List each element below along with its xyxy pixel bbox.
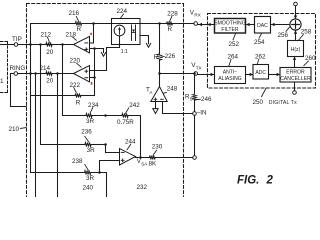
terminal digital rx (294, 2, 298, 6)
ground under 248 (155, 102, 157, 109)
wire RING left loop (11, 74, 27, 107)
wire VTX (160, 73, 194, 75)
svg-text:TX: TX (196, 66, 202, 71)
label 262 (255, 53, 266, 60)
svg-text:SMOOTHING: SMOOTHING (214, 21, 245, 27)
svg-text:20: 20 (46, 49, 54, 56)
svg-text:ALIASING: ALIASING (218, 76, 242, 82)
ladder row2 wire 236 (41, 144, 85, 146)
label 264 (228, 53, 239, 60)
error canceller (280, 68, 311, 83)
FIG. 2 title (237, 175, 274, 187)
svg-text:A: A (149, 90, 153, 95)
svg-text:0.75R: 0.75R (117, 119, 134, 126)
wire 224 bottom to 220 plus (119, 36, 121, 48)
wire VRX to smoothing filter (198, 24, 215, 26)
TIP terminal (0, 44, 14, 46)
summing amp 244 (120, 149, 136, 166)
svg-text:240: 240 (83, 185, 94, 192)
wire Hz to summer (295, 30, 297, 40)
svg-text:216: 216 (69, 10, 80, 17)
svg-text:238: 238 (72, 158, 83, 165)
riser C TIP to row2 (40, 45, 42, 145)
svg-text:8K: 8K (149, 160, 158, 167)
svg-text:3R: 3R (86, 175, 95, 182)
red mark near 218 (90, 33, 92, 35)
H(z) 260 (288, 41, 304, 57)
wire 224 to VRX (140, 23, 194, 25)
wire ADC to error canceller (269, 74, 281, 76)
wire DAC to smoothing (246, 24, 255, 26)
resistor 222 (75, 94, 82, 98)
junction 226 tap (158, 22, 161, 25)
svg-text:DAC: DAC (257, 23, 268, 29)
wire 216 feedback (31, 23, 75, 25)
svg-text:R: R (76, 99, 81, 106)
wire 244 minus input (106, 145, 120, 153)
svg-text:230: 230 (152, 144, 163, 151)
wire 220 minus (90, 77, 95, 79)
svg-text:H(z): H(z) (291, 47, 301, 53)
svg-text:220: 220 (70, 57, 81, 64)
ladder row3 wire 238 (31, 172, 85, 174)
svg-text:TIP: TIP (12, 36, 22, 43)
svg-text:236: 236 (81, 129, 92, 136)
svg-text:224: 224 (117, 8, 128, 15)
svg-text:−IN: −IN (197, 110, 207, 117)
svg-text:256: 256 (278, 32, 289, 39)
anti-aliasing 264 (215, 67, 246, 84)
terminal VRX (194, 22, 198, 26)
svg-text:20: 20 (46, 77, 54, 84)
svg-text:232: 232 (137, 184, 148, 191)
svg-text:ERROR: ERROR (286, 70, 305, 76)
resistor 212 (45, 43, 52, 47)
far-left dashed fragment (1, 42, 8, 93)
svg-text:260: 260 (305, 55, 316, 62)
resistor 216 (75, 22, 82, 26)
svg-text:264: 264 (228, 53, 239, 60)
wire anti-aliasing to ADC (246, 74, 254, 76)
svg-text:RX: RX (194, 13, 200, 18)
svg-text:R: R (154, 54, 159, 61)
svg-text:FILTER: FILTER (221, 27, 238, 33)
riser E TIP to row1 (62, 45, 64, 116)
resistor 214 (45, 72, 52, 76)
ADC 262 (253, 65, 269, 80)
terminal -IN (193, 112, 197, 116)
svg-text:228: 228 (167, 11, 178, 18)
label 250 (253, 99, 264, 106)
op-amp 218 (74, 36, 90, 53)
resistor 236 (84, 143, 91, 147)
svg-text:ADC: ADC (255, 70, 266, 76)
wire 244 plus input (100, 161, 120, 173)
op-amp 220 (74, 66, 90, 82)
resistor 234 (85, 114, 92, 118)
resistor 228 (166, 22, 173, 26)
dashed box 250 (208, 14, 316, 89)
junction RS tap (193, 72, 196, 75)
label 254 (254, 39, 265, 46)
wire 222 feedback (31, 95, 75, 97)
svg-text:242: 242 (129, 102, 140, 109)
wire RING to op-amp 220 (18, 73, 74, 75)
svg-text:RING: RING (10, 65, 26, 72)
terminal VTX (194, 72, 198, 76)
svg-text:234: 234 (88, 102, 99, 109)
zener element in 224 (131, 25, 133, 41)
ground arrow at 218 plus (95, 49, 104, 53)
wire through 224 (112, 23, 140, 25)
RING terminal (14, 72, 18, 76)
riser B RING down (35, 74, 37, 198)
current source circle in 224 (114, 25, 125, 36)
wire error canceller to Hz (294, 57, 296, 68)
vertical node A 216/TIP/RING/222/row3 (30, 24, 32, 173)
svg-text:262: 262 (255, 53, 266, 60)
svg-text:258: 258 (301, 28, 312, 35)
terminal node 230 -IN (193, 156, 197, 160)
transformer block 224 (112, 19, 141, 45)
svg-text:254: 254 (254, 39, 265, 46)
red mark near 220 (91, 82, 93, 85)
label 256 (278, 32, 289, 39)
label DIGITAL Tx (269, 100, 297, 106)
riser D RING down (57, 74, 59, 198)
svg-text:214: 214 (40, 65, 51, 72)
DAC 254 (255, 17, 271, 34)
svg-text:ANTI−: ANTI− (223, 70, 238, 76)
svg-text:226: 226 (165, 53, 176, 60)
svg-text:3R: 3R (86, 118, 95, 125)
summer 258 (290, 19, 301, 30)
svg-text:DIGITAL Tx: DIGITAL Tx (269, 100, 297, 106)
svg-text:222: 222 (70, 82, 81, 89)
ladder row1 wire 234 242 (63, 115, 86, 117)
svg-text:246: 246 (201, 96, 212, 103)
svg-text:FIG.: FIG. (237, 175, 259, 187)
wire 248 to -IN (163, 102, 193, 114)
svg-text:21: 21 (0, 78, 4, 85)
wire 244 output VSA (136, 157, 149, 159)
resistor 230 (149, 156, 156, 160)
label 258 (301, 28, 312, 35)
label 260 (305, 55, 316, 62)
wire 218 minus to 216 node (90, 24, 94, 44)
svg-text:250: 250 (253, 99, 264, 106)
label 240 row off-screen (83, 185, 94, 192)
svg-text:SA: SA (141, 162, 148, 167)
svg-text:1:1: 1:1 (121, 49, 128, 55)
svg-text:R: R (168, 26, 173, 33)
resistor 242 (121, 114, 128, 118)
svg-text:2: 2 (266, 175, 274, 187)
wire 220 plus to box 224 (90, 45, 120, 71)
smoothing filter 252 (215, 19, 246, 34)
svg-text:CANCELLER: CANCELLER (280, 76, 311, 82)
wire 230 to terminal (156, 157, 193, 159)
svg-text:R: R (77, 26, 82, 33)
resistor 238 (84, 171, 91, 175)
wire 218 plus to 220 minus (94, 49, 96, 96)
svg-text:3R: 3R (87, 147, 96, 154)
svg-text:S: S (190, 97, 193, 102)
wire summer to DAC (271, 24, 290, 26)
dashed box 210 (27, 4, 184, 198)
svg-text:210: 210 (9, 126, 20, 133)
resistor RS 246 (194, 74, 196, 94)
wire VTX to anti-aliasing (198, 74, 215, 76)
wire TIP to op-amp 218 (18, 44, 74, 46)
svg-text:218: 218 (66, 31, 77, 38)
resistor 226 vertical (159, 24, 161, 54)
wire 218 plus (90, 48, 95, 50)
label 252 (229, 41, 240, 48)
wire RS node to 230 node (194, 115, 196, 155)
junction dots (29, 43, 32, 46)
partial label 21 clipped (0, 78, 4, 85)
label 210 (9, 126, 20, 133)
svg-text:252: 252 (229, 41, 240, 48)
label 232 (137, 184, 148, 191)
svg-text:248: 248 (167, 85, 178, 92)
op-amp 248 (151, 87, 167, 102)
svg-text:212: 212 (41, 31, 52, 38)
junction 226 to VTX (158, 72, 161, 75)
wire 224 right ground arrow (140, 36, 149, 44)
wire error canceller to digital tx (294, 82, 296, 91)
